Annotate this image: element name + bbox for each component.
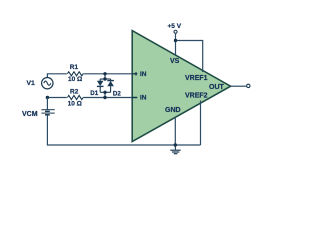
source V1 [42,78,53,89]
wire diode-bridge bottom stem [104,92,106,97]
svg-text:IN: IN [140,71,147,78]
svg-text:IN: IN [140,95,147,102]
diode D2 [107,79,114,92]
svg-text:VREF1: VREF1 [185,75,208,82]
junction dot top rail [103,72,106,75]
junction dot bridge bottom [103,91,106,94]
junction dot ground rail [174,143,177,146]
wire VCM to ground rail [47,115,200,145]
wire diode-bridge bottom bar [100,91,110,93]
svg-text:GND: GND [165,107,181,114]
wire GND pin [174,117,176,145]
svg-text:OUT: OUT [209,84,225,91]
wire output [231,85,246,87]
wire diode-bridge top stem [104,74,106,79]
wire VREF1 jog [176,41,203,73]
svg-text:R1: R1 [70,64,79,71]
svg-text:VCM: VCM [22,111,38,118]
ground symbol [170,145,180,154]
junction dot V1 bottom [46,96,49,99]
wire bottom rail to -IN [47,97,132,99]
resistor R1 [67,71,83,77]
op-amp U1 (difference amplifier triangle) [132,31,230,142]
pin +IN plus tick [135,72,137,75]
wire top rail V1 to +IN [47,74,132,78]
svg-text:+5 V: +5 V [168,23,182,30]
wire VREF2 drop [200,101,202,146]
junction dot bottom rail [103,96,106,99]
diode D1 [97,79,104,92]
pin +IN stub wire [132,73,137,75]
junction dot VS [174,39,177,42]
svg-text:D2: D2 [113,90,121,97]
resistor R2 [67,95,83,101]
svg-text:10 Ω: 10 Ω [68,76,82,83]
battery VCM [41,98,54,115]
wire diode-bridge top bar [100,78,110,80]
svg-text:V1: V1 [27,80,36,87]
svg-text:VREF2: VREF2 [185,92,208,99]
svg-text:R2: R2 [70,89,79,96]
svg-text:D1: D1 [90,90,98,97]
svg-text:10 Ω: 10 Ω [68,101,82,108]
pin -IN stub wire [132,97,137,99]
svg-text:VS: VS [170,58,180,65]
junction dot bridge top [103,77,106,80]
terminal OUT [247,84,250,87]
terminal +5V [174,30,177,33]
wire VS pin [175,34,177,55]
